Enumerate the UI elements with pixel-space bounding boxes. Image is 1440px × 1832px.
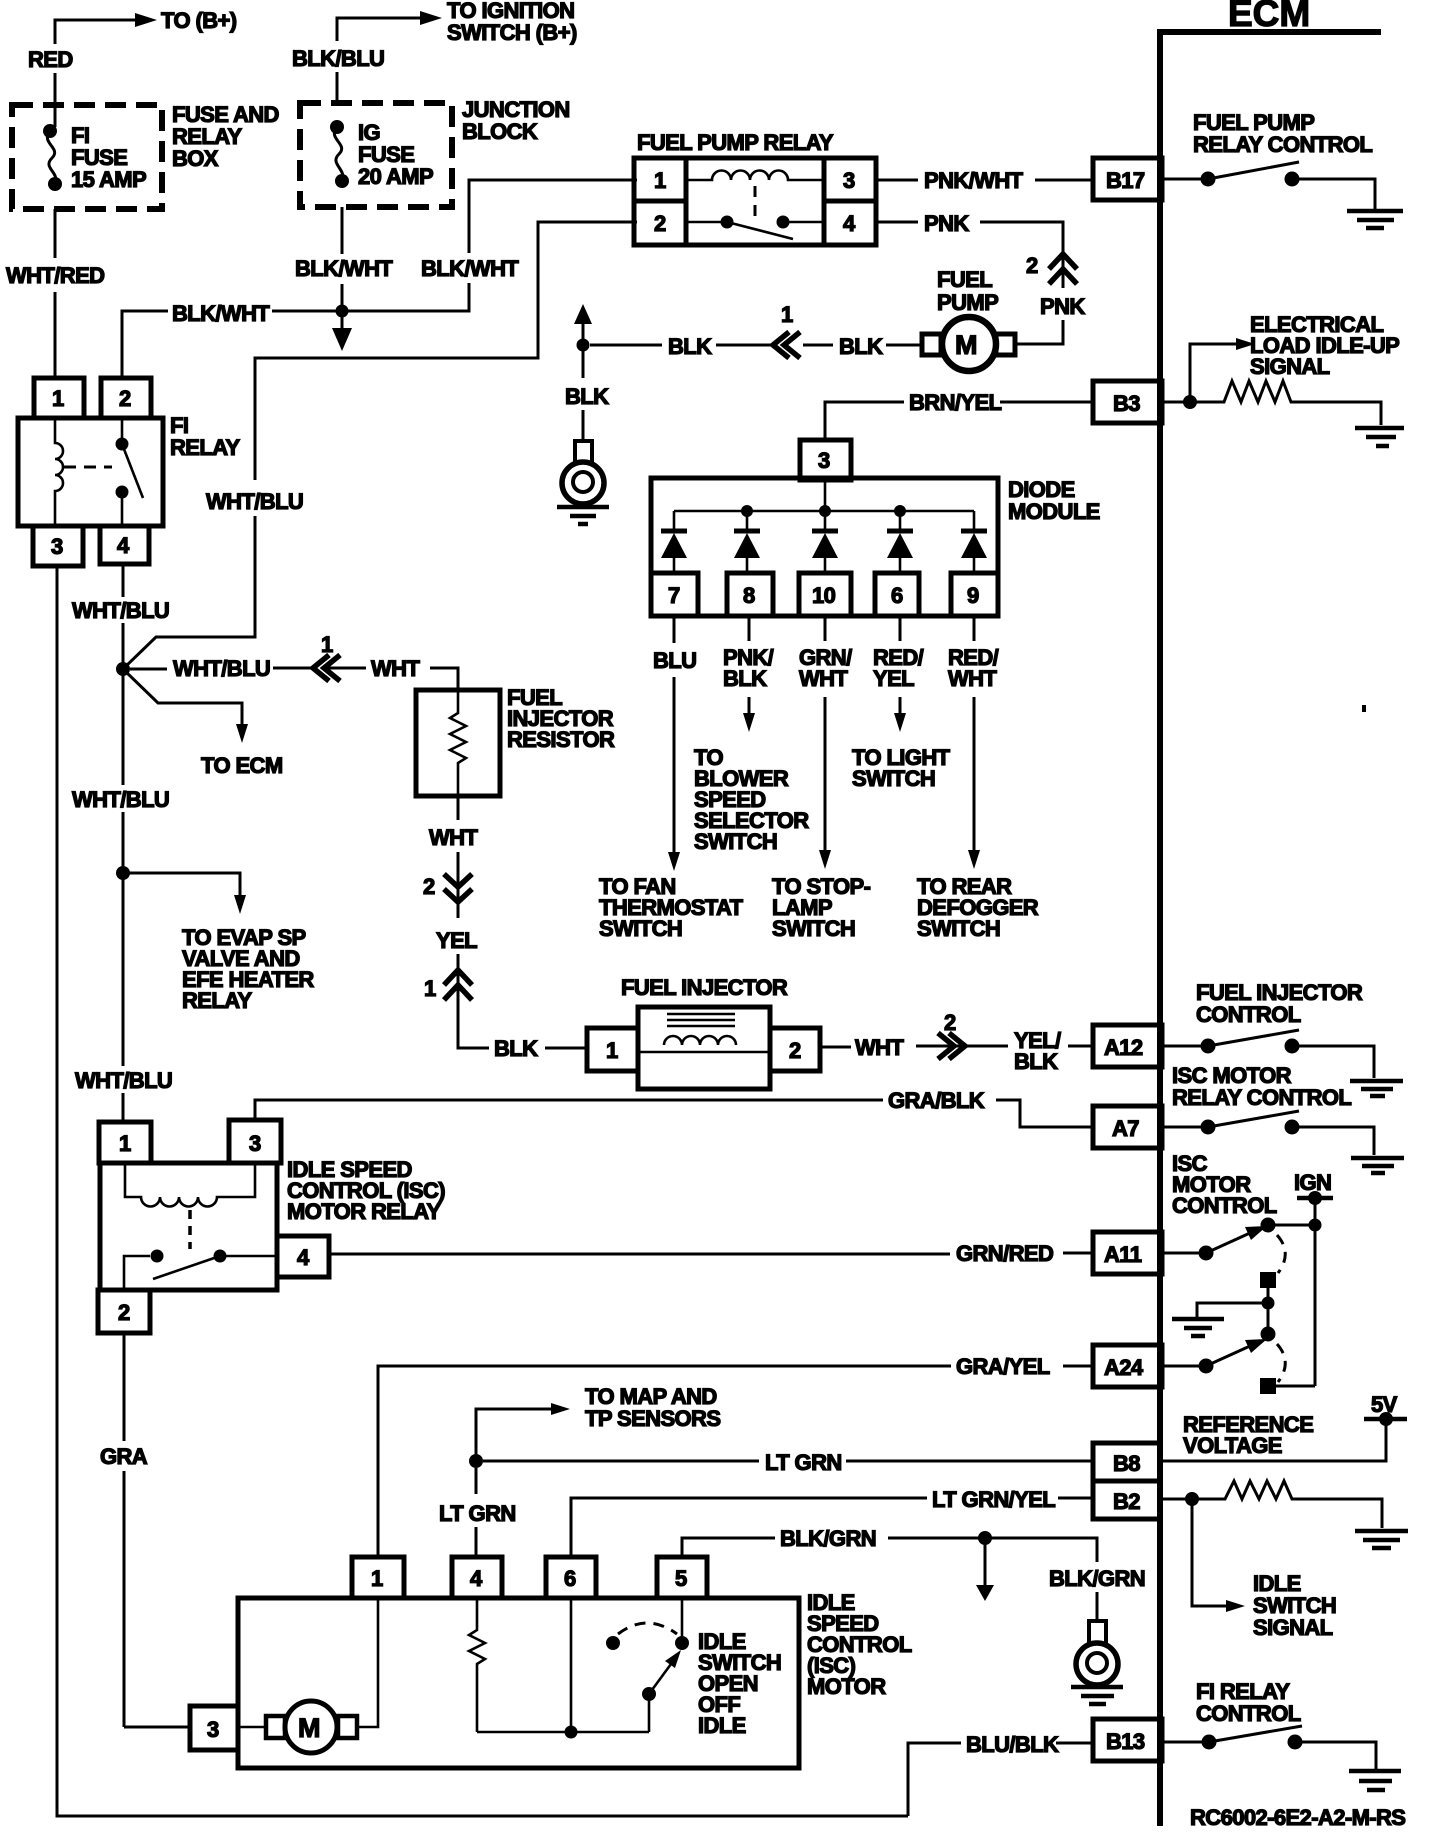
wire: BLK/WHT horizontal to FI relay pin2 xyxy=(272,310,342,313)
svg-text:M: M xyxy=(298,1713,320,1743)
svg-text:2: 2 xyxy=(423,874,435,899)
wire: RED/WHT pin9 xyxy=(973,616,976,641)
fuel injector pin 2 xyxy=(770,1028,820,1071)
svg-text:TO (B+): TO (B+) xyxy=(161,8,237,33)
svg-text:6: 6 xyxy=(564,1566,576,1591)
svg-text:BRN/YEL: BRN/YEL xyxy=(909,390,1002,415)
5V terminal xyxy=(1364,1417,1407,1422)
svg-text:IGN: IGN xyxy=(1294,1170,1331,1195)
FI relay pin 1 xyxy=(34,378,84,418)
junction BLK/GRN xyxy=(978,1531,992,1545)
ground (B13) xyxy=(1349,1769,1401,1774)
contact square bottom xyxy=(1260,1378,1276,1394)
ISC motor control switch A11 xyxy=(1162,1252,1206,1255)
fuel pump relay coil xyxy=(686,171,824,181)
wire: BLK to fuel injector xyxy=(458,988,489,1048)
ECM pin B17 xyxy=(1093,158,1162,200)
BLK ground drop xyxy=(574,304,592,324)
wire: BLK fuel pump to connector xyxy=(886,344,922,347)
FI relay link (dashed) xyxy=(64,466,112,469)
ISC motor pin 4 xyxy=(452,1557,502,1598)
svg-text:PNK: PNK xyxy=(924,211,969,236)
svg-text:B3: B3 xyxy=(1113,391,1140,416)
ECM pin A11 xyxy=(1093,1232,1162,1274)
arrow continuation down xyxy=(341,311,344,328)
wire: LT GRN to ISC motor pin4 xyxy=(475,1468,478,1494)
fuel pump relay pin 1 xyxy=(634,158,686,201)
svg-text:FUEL INJECTOR: FUEL INJECTOR xyxy=(621,975,788,1000)
ground terminal (ring) BLK xyxy=(575,441,592,464)
diode D1 xyxy=(661,511,687,573)
wire: WHT/RED fuse to FI relay pin1 xyxy=(54,209,57,258)
svg-text:10: 10 xyxy=(812,583,836,608)
svg-text:2: 2 xyxy=(118,1300,130,1325)
wire: WHT/RED rail left (pin3 to bottom) xyxy=(57,566,908,1816)
idle switch blade xyxy=(642,1687,656,1701)
ECM pin A12 xyxy=(1093,1025,1162,1067)
svg-text:9: 9 xyxy=(967,583,979,608)
svg-text:1: 1 xyxy=(321,632,333,657)
wire: BLK/GRN pin5 xyxy=(682,1538,775,1557)
svg-text:FI RELAYCONTROL: FI RELAYCONTROL xyxy=(1196,1679,1301,1726)
svg-text:B17: B17 xyxy=(1106,168,1145,193)
wire: B3 branch arrow xyxy=(1162,401,1188,404)
svg-text:WHT/BLU: WHT/BLU xyxy=(72,598,169,623)
svg-text:3: 3 xyxy=(249,1131,261,1156)
ISC motor pin 6 xyxy=(546,1557,596,1598)
fuse and relay box (dashed) xyxy=(12,105,162,209)
svg-text:WHT/BLU: WHT/BLU xyxy=(75,1068,172,1093)
svg-text:BLK: BLK xyxy=(839,334,883,359)
svg-text:7: 7 xyxy=(668,583,680,608)
svg-text:BLK/WHT: BLK/WHT xyxy=(172,301,270,326)
ISC motor relay link (dashed) xyxy=(188,1210,192,1249)
wire: WHT into injector resistor xyxy=(430,668,458,690)
ground (B17) xyxy=(1347,209,1403,214)
svg-text:PNK/WHT: PNK/WHT xyxy=(924,168,1024,193)
svg-text:PNK/BLK: PNK/BLK xyxy=(723,645,774,691)
svg-text:BLK/GRN: BLK/GRN xyxy=(780,1526,876,1551)
fuel pump relay pin 2 xyxy=(634,201,686,245)
wire: GRA/BLK ISC relay pin3 to A7 xyxy=(255,1100,883,1120)
svg-text:8: 8 xyxy=(743,583,755,608)
fuel injector coil xyxy=(664,1036,736,1045)
svg-text:WHT/RED: WHT/RED xyxy=(6,263,104,288)
wire: PNK/WHT pin3 to B17 xyxy=(876,179,918,182)
connector 1 (double chevron left, BLK) xyxy=(773,332,800,358)
ECM pin A24 xyxy=(1093,1345,1162,1387)
svg-text:ECM: ECM xyxy=(1228,0,1310,34)
wire: GRN/WHT pin10 xyxy=(824,616,827,641)
diode D3 xyxy=(812,511,838,573)
ground terminal (ring) BLK/GRN xyxy=(1089,1621,1106,1644)
diode module pin 3 xyxy=(800,440,851,480)
svg-text:3: 3 xyxy=(207,1717,219,1742)
wire: TO MAP AND TP SENSORS arrow xyxy=(476,1409,551,1461)
svg-text:GRA/YEL: GRA/YEL xyxy=(956,1354,1050,1379)
ECM pin B13 xyxy=(1093,1719,1162,1761)
svg-text:YEL: YEL xyxy=(436,928,477,953)
svg-text:BLU/BLK: BLU/BLK xyxy=(966,1732,1059,1757)
wire: TO EVAP branch xyxy=(123,873,240,895)
ISC motor relay pin 1 xyxy=(99,1122,151,1163)
diode module pin 9 xyxy=(951,573,998,616)
wire: LT GRN/YEL pin6 to B2 xyxy=(571,1498,927,1557)
svg-text:PNK: PNK xyxy=(1040,294,1085,319)
svg-text:WHT: WHT xyxy=(371,656,420,681)
svg-text:LT GRN: LT GRN xyxy=(765,1450,842,1475)
svg-text:M: M xyxy=(955,330,977,360)
junction WHT/BLU xyxy=(116,662,130,676)
wire: BLU/BLK bottom rail to B13 xyxy=(908,1743,961,1816)
ISC motor relay pin 2 xyxy=(98,1290,150,1333)
svg-text:BLK/WHT: BLK/WHT xyxy=(421,256,519,281)
svg-text:2: 2 xyxy=(654,211,666,236)
ground (ISC motor control) xyxy=(1197,1303,1268,1317)
ISC motor body xyxy=(238,1598,799,1768)
svg-text:1: 1 xyxy=(424,976,436,1001)
connector 2 (double chevron right) xyxy=(938,1033,965,1059)
svg-text:GRA/BLK: GRA/BLK xyxy=(888,1088,985,1113)
wire: RED/YEL pin6 xyxy=(899,616,902,641)
svg-text:A12: A12 xyxy=(1104,1035,1143,1060)
wire: BLU pin7 xyxy=(673,616,676,643)
ISC motor relay pin 4 xyxy=(277,1236,329,1277)
wire: PNK pin4 xyxy=(876,221,918,224)
wire: WHT/BLU label stub right xyxy=(130,668,167,671)
wire: BLK/WHT to fuel pump relay pin1 xyxy=(342,283,469,311)
wire: BRN/YEL diode module to B3 xyxy=(825,402,904,440)
svg-text:BLK/GRN: BLK/GRN xyxy=(1049,1566,1145,1591)
svg-text:BLK/BLU: BLK/BLU xyxy=(292,46,384,71)
contact square top xyxy=(1260,1272,1276,1288)
idle switch contacts xyxy=(606,1636,620,1650)
svg-text:A11: A11 xyxy=(1104,1242,1142,1267)
fuel injector resistor box xyxy=(416,690,500,796)
wire: pin5 internal xyxy=(681,1598,684,1643)
svg-text:1: 1 xyxy=(371,1566,383,1591)
resistor: electrical load idle-up xyxy=(1190,381,1381,425)
wire: BLK/BLU feed to ignition switch xyxy=(337,18,420,41)
fuel pump relay link (dashed) xyxy=(754,186,757,218)
svg-text:GRN/RED: GRN/RED xyxy=(956,1241,1053,1266)
ground (B2) xyxy=(1355,1529,1408,1534)
connector 2 (double chevron down) xyxy=(444,874,472,902)
svg-text:BLU: BLU xyxy=(653,648,696,673)
switch: fuel pump relay control xyxy=(1162,178,1208,181)
svg-text:BLK/WHT: BLK/WHT xyxy=(295,256,393,281)
IGN terminal xyxy=(1297,1196,1333,1201)
FI relay pin 3 xyxy=(33,526,83,566)
ECM pin B2 xyxy=(1093,1481,1160,1519)
ISC motor relay pin 3 xyxy=(229,1120,281,1163)
diode module pin 8 xyxy=(727,573,773,616)
svg-text:WHT/BLU: WHT/BLU xyxy=(72,787,169,812)
wire: B8 to 5V xyxy=(1160,1419,1386,1461)
wire+resistor: B2 idle switch xyxy=(1160,1498,1188,1501)
diode module body xyxy=(651,478,998,616)
junction BLK/WHT xyxy=(336,305,349,318)
resistor element xyxy=(450,690,466,796)
wire: BLK/WHT from IG fuse down xyxy=(341,207,344,254)
FI relay switch xyxy=(121,418,124,444)
diode module bus xyxy=(674,510,974,513)
wire: internal bus xyxy=(477,1731,649,1734)
svg-text:4: 4 xyxy=(843,211,856,236)
svg-text:B13: B13 xyxy=(1106,1729,1145,1754)
svg-text:WHT/BLU: WHT/BLU xyxy=(206,489,303,514)
wire: GRA/YEL ISC motor pin1 to A24 xyxy=(378,1366,951,1557)
wire: WHT injector to connector xyxy=(820,1046,851,1049)
junction block (dashed) xyxy=(300,103,452,207)
wire: RED into fuse box xyxy=(54,73,57,127)
wire: WHT/BLU fuel pump relay pin2 feed xyxy=(255,222,637,480)
FI relay coil xyxy=(55,418,63,526)
svg-text:1: 1 xyxy=(52,386,64,411)
svg-text:FUELPUMP: FUELPUMP xyxy=(937,267,998,315)
arrow to ignition switch xyxy=(420,11,442,25)
ECM pin B3 xyxy=(1093,381,1162,423)
ECM pin A7 xyxy=(1093,1106,1162,1148)
motor M (ISC) xyxy=(238,1726,266,1729)
resistor (ISC motor internal) xyxy=(469,1598,485,1732)
svg-text:FUEL PUMP RELAY: FUEL PUMP RELAY xyxy=(637,130,834,155)
switch: FI relay control xyxy=(1162,1741,1209,1744)
svg-text:1: 1 xyxy=(654,168,666,193)
svg-text:WHT: WHT xyxy=(855,1035,904,1060)
svg-text:WHT: WHT xyxy=(429,825,478,850)
speck artifact xyxy=(1362,705,1366,712)
connector 1 (double chevron up) xyxy=(457,954,460,988)
svg-text:A24: A24 xyxy=(1104,1355,1144,1380)
wire: WHT/BLU rail (pin4 down) xyxy=(122,564,125,597)
svg-text:BLK: BLK xyxy=(565,384,609,409)
wire: LT GRN to B8 xyxy=(469,1454,483,1468)
connector 1 (double chevron left) xyxy=(313,655,340,681)
svg-text:3: 3 xyxy=(843,168,855,193)
svg-text:2: 2 xyxy=(119,386,131,411)
wire: RED feed to (B+) xyxy=(55,20,135,44)
switch: ISC motor relay control xyxy=(1162,1126,1208,1129)
diode D4 xyxy=(887,511,913,573)
svg-text:A7: A7 xyxy=(1112,1116,1139,1141)
ISC motor pin 1 xyxy=(352,1557,404,1598)
svg-text:2: 2 xyxy=(1026,253,1038,278)
svg-text:4: 4 xyxy=(470,1566,483,1591)
diode D2 xyxy=(734,511,760,573)
wire: GRN/RED pin4 to A11 xyxy=(329,1253,950,1256)
svg-text:4: 4 xyxy=(117,533,130,558)
fuel pump relay pin 4 xyxy=(824,201,876,245)
fuel pump relay body xyxy=(634,158,876,245)
svg-text:TO ECM: TO ECM xyxy=(201,753,283,778)
dashed arc (A24 throw) xyxy=(1277,1344,1285,1382)
wire: GRA ISC relay pin2 down xyxy=(123,1333,126,1441)
wire: PNK to fuel pump xyxy=(1016,320,1063,344)
junction WHT/BLU 2 xyxy=(116,866,130,880)
svg-text:1: 1 xyxy=(119,1131,131,1156)
svg-text:2: 2 xyxy=(789,1038,801,1063)
svg-text:3: 3 xyxy=(51,534,63,559)
svg-text:3: 3 xyxy=(818,448,830,473)
svg-text:1: 1 xyxy=(606,1038,618,1063)
arrow: BLK/GRN continuation down xyxy=(984,1538,987,1585)
svg-text:GRN/WHT: GRN/WHT xyxy=(799,645,852,691)
svg-text:RED: RED xyxy=(28,47,73,72)
FI relay body xyxy=(18,418,163,526)
ECM pin B8 xyxy=(1093,1443,1160,1481)
svg-text:BLK: BLK xyxy=(668,334,712,359)
svg-text:RC6002-6E2-A2-M-RS: RC6002-6E2-A2-M-RS xyxy=(1190,1805,1405,1830)
fuel pump relay switch xyxy=(686,221,727,224)
svg-text:LT GRN: LT GRN xyxy=(439,1501,516,1526)
connector 2 (double chevron up) xyxy=(1049,254,1077,284)
diode module pin 7 xyxy=(651,573,698,616)
svg-text:B8: B8 xyxy=(1113,1451,1140,1476)
ISC motor relay body xyxy=(100,1163,277,1290)
ground (A7) xyxy=(1351,1156,1404,1161)
svg-text:1: 1 xyxy=(781,302,793,327)
svg-text:4: 4 xyxy=(297,1245,310,1270)
FI relay pin 2 xyxy=(101,378,151,418)
wire: PNK/BLK pin8 xyxy=(748,616,751,641)
diode module pin 6 xyxy=(875,573,919,616)
wire: idle switch signal arrow xyxy=(1192,1499,1226,1606)
wire: motor to pin1 (internal) xyxy=(357,1598,378,1727)
fuel injector pin 1 xyxy=(587,1028,638,1071)
wire: WHT below resistor xyxy=(457,796,460,820)
svg-text:B2: B2 xyxy=(1113,1489,1140,1514)
svg-text:LT GRN/YEL: LT GRN/YEL xyxy=(932,1487,1055,1512)
svg-text:BLK: BLK xyxy=(494,1036,538,1061)
ISC motor relay switch xyxy=(124,1256,150,1290)
svg-text:6: 6 xyxy=(891,583,903,608)
svg-text:WHT/BLU: WHT/BLU xyxy=(173,656,270,681)
ground (A12) xyxy=(1350,1079,1403,1084)
dashed arc (idle switch) xyxy=(618,1623,677,1634)
diode D5 xyxy=(961,511,987,573)
fuel pump relay pin 3 xyxy=(824,158,876,201)
FI relay pin 4 xyxy=(100,526,149,564)
ground (B3) xyxy=(1355,426,1404,431)
svg-text:YEL/BLK: YEL/BLK xyxy=(1014,1028,1061,1074)
ISC motor control switch A24 xyxy=(1162,1365,1206,1368)
ISC motor relay coil xyxy=(125,1163,255,1207)
ECM boundary line xyxy=(1157,29,1163,1826)
switch: fuel injector control xyxy=(1162,1045,1208,1048)
svg-text:GRA: GRA xyxy=(100,1444,148,1469)
dashed arc (A11 throw) xyxy=(1277,1235,1285,1273)
arrow to (B+) xyxy=(135,13,157,27)
fuel pump motor M xyxy=(922,334,941,355)
fuse IG 20A symbol xyxy=(330,120,344,134)
fuel injector body xyxy=(638,1007,770,1089)
svg-text:TO MAP ANDTP SENSORS: TO MAP ANDTP SENSORS xyxy=(585,1384,720,1431)
svg-text:RED/WHT: RED/WHT xyxy=(948,645,999,691)
diode module pin 10 xyxy=(799,573,851,616)
fuse FI 15A symbol xyxy=(43,124,57,138)
wire: pin6 internal xyxy=(570,1598,573,1732)
svg-text:TO IGNITIONSWITCH (B+): TO IGNITIONSWITCH (B+) xyxy=(447,0,577,45)
svg-text:5: 5 xyxy=(675,1566,687,1591)
wire: TO ECM branch xyxy=(126,672,242,724)
ISC motor pin 5 xyxy=(657,1557,707,1598)
wire: WHT from connector xyxy=(273,667,311,670)
ISC motor pin 3 xyxy=(190,1706,238,1750)
svg-text:2: 2 xyxy=(944,1010,956,1035)
